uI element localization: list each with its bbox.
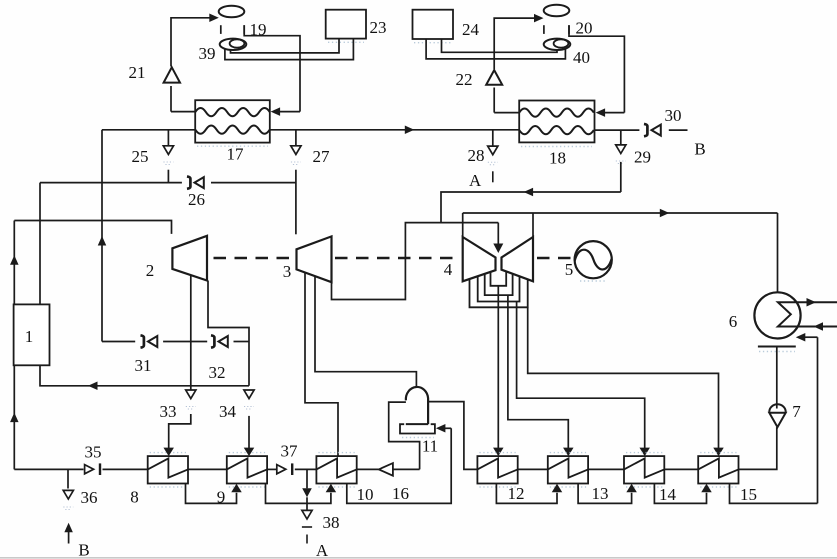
- heater 17 shell: [195, 100, 270, 142]
- heater 12 drain cascade to 13: [496, 484, 557, 504]
- flow arrow up into main steam line: [10, 255, 18, 264]
- turbine 3 extraction to deaerator 11: [315, 276, 416, 387]
- wire box 24 to pump 40 (lower): [426, 39, 565, 59]
- svg-text:2: 2: [146, 261, 155, 280]
- svg-text:A: A: [469, 171, 482, 190]
- wire fan discharge to heater 17 coil: [244, 25, 300, 111]
- heater 18 shell: [519, 101, 594, 143]
- wire ejector 22 to fan 20: [494, 18, 534, 69]
- wire hot reheat line to turbine 3: [40, 182, 182, 184]
- wire heater 12 to 13: [518, 468, 548, 470]
- wire pump 16 to deaerator outlet: [393, 468, 420, 470]
- svg-text:23: 23: [370, 18, 387, 37]
- wire coil outlet up to ejector 21: [170, 86, 172, 112]
- wire heater 14 to 15: [664, 468, 698, 470]
- coil outlet stub of 17: [171, 111, 195, 113]
- wire coil outlet up to ejector 22: [493, 88, 495, 113]
- wire extraction riser to heater 17: [101, 130, 103, 342]
- svg-text:37: 37: [281, 442, 299, 461]
- extraction drop to heater 14: [517, 302, 645, 449]
- turbine 4 left half: [463, 237, 496, 281]
- svg-text:40: 40: [573, 48, 590, 67]
- deaerator water to heater 12: [428, 402, 477, 470]
- scan edge shading bottom: [0, 557, 837, 559]
- flow arrow toward boiler: [88, 382, 98, 391]
- valve 35: [85, 465, 94, 474]
- extraction drop to heater 12: [497, 286, 499, 448]
- svg-text:11: 11: [422, 437, 438, 456]
- pump 39: [220, 39, 247, 50]
- A-branch with drain 38: [306, 469, 308, 488]
- shaft dashes 4-5: [537, 257, 572, 259]
- flow arrow on A-line: [524, 188, 534, 197]
- flow arrow on water line: [405, 126, 415, 135]
- generator 5: [575, 241, 612, 278]
- svg-text:24: 24: [462, 20, 480, 39]
- wire heater 8 to heater 9: [188, 468, 227, 470]
- drain 28: [492, 130, 494, 146]
- heater 18 water tubes: [519, 126, 594, 134]
- drain 25: [167, 130, 169, 146]
- valve 31: [141, 335, 144, 347]
- svg-text:35: 35: [85, 443, 102, 462]
- valve 7: [769, 404, 785, 412]
- coil inlet arrow into 17: [279, 111, 300, 113]
- svg-text:10: 10: [357, 485, 374, 504]
- wire heater 15 drain riser: [817, 337, 819, 503]
- wire hot reheat riser from boiler: [39, 183, 41, 305]
- svg-text:27: 27: [313, 147, 331, 166]
- network return B: [64, 523, 73, 533]
- svg-text:32: 32: [209, 363, 226, 382]
- turbine 3 extraction to heater 10: [305, 273, 338, 457]
- condenser 6: [754, 292, 800, 338]
- svg-text:14: 14: [659, 485, 677, 504]
- turbine 4 casing top / exhaust to condenser: [463, 212, 778, 214]
- svg-text:13: 13: [592, 484, 609, 503]
- svg-text:20: 20: [576, 19, 593, 38]
- svg-text:34: 34: [219, 402, 237, 421]
- wire to network supply B: [669, 129, 688, 131]
- svg-text:16: 16: [392, 484, 409, 503]
- condensate line to valve 7: [776, 348, 778, 409]
- heater 18 steam coil: [519, 108, 594, 116]
- extraction bracket a: [470, 279, 528, 307]
- wire A-line into turbine 4 inlet: [441, 192, 621, 223]
- wire drain 29 to A-line: [620, 162, 622, 192]
- wire valve 37 to heater 10: [295, 468, 317, 470]
- heater 8 drain cascade to 9: [186, 484, 237, 504]
- hotwell level bar: [758, 346, 796, 348]
- ejector 21: [164, 67, 180, 82]
- wire main steam line to turbine 2: [14, 221, 171, 234]
- svg-text:15: 15: [740, 485, 757, 504]
- wire reheat line after valve 26: [211, 182, 296, 184]
- ejector 22: [486, 70, 502, 85]
- turbine 4 right half: [502, 237, 534, 281]
- svg-text:30: 30: [665, 106, 682, 125]
- svg-text:12: 12: [508, 484, 525, 503]
- svg-text:B: B: [694, 140, 705, 159]
- svg-text:22: 22: [456, 70, 473, 89]
- shaft ticks under fan 20: [543, 25, 545, 34]
- wire valve 31 branch: [102, 341, 135, 343]
- flow arrow to condenser: [660, 209, 670, 218]
- extraction bracket d: [491, 271, 507, 285]
- turbine 3: [297, 236, 332, 282]
- drain 29: [620, 130, 622, 144]
- wire pump 39 to box 23 (lower): [225, 39, 354, 60]
- cooling water outlet arrow: [807, 298, 817, 307]
- svg-text:8: 8: [130, 488, 139, 507]
- heat network water line (left): [102, 129, 195, 131]
- wire drain 33 to heater 8: [169, 414, 191, 448]
- drain 27: [295, 130, 297, 146]
- deaerator 11 tray: [400, 424, 435, 433]
- condenser cooling coil: [778, 302, 837, 326]
- water line from B to valve 35: [14, 468, 83, 470]
- svg-text:1: 1: [25, 327, 34, 346]
- drain 36: [67, 469, 69, 488]
- coil outlet stub of 18: [494, 112, 519, 114]
- boiler 1: [14, 304, 50, 365]
- heater 14: [624, 456, 664, 483]
- condensate line to heater 15: [739, 427, 777, 469]
- svg-text:21: 21: [129, 63, 146, 82]
- valve 37: [277, 465, 286, 474]
- heater 12: [477, 456, 517, 483]
- heater 13: [548, 456, 588, 483]
- svg-text:25: 25: [132, 147, 149, 166]
- svg-text:18: 18: [549, 149, 566, 168]
- heater 8: [148, 456, 188, 483]
- wire feedwater return to boiler: [40, 365, 249, 386]
- extraction drop to heater 13: [508, 295, 568, 448]
- valve 30: [644, 124, 647, 136]
- svg-text:7: 7: [792, 402, 801, 421]
- drain return arrow into condenser: [805, 336, 818, 338]
- svg-text:B: B: [78, 541, 89, 559]
- heat network water line (middle): [270, 129, 519, 131]
- wire valve 35 to heater 8: [103, 468, 148, 470]
- wire boiler feed riser: [13, 365, 15, 469]
- wire boiler top to main steam header: [13, 221, 15, 305]
- heater 9 drain cascade to 10: [266, 484, 331, 504]
- wire fan discharge to heater 18 coil: [569, 25, 624, 112]
- turbine 4 inlet arrow: [497, 223, 499, 244]
- turbine 2 exhaust jog to header: [208, 281, 249, 386]
- fan 20: [544, 5, 570, 16]
- drain 33: [186, 390, 196, 399]
- svg-text:29: 29: [634, 148, 651, 167]
- shaft dashes 3-4: [335, 257, 459, 259]
- heater 17 steam coil: [195, 108, 270, 116]
- drive box 24: [413, 10, 454, 39]
- wire drain 34 to heater 9: [248, 416, 250, 448]
- svg-text:17: 17: [227, 145, 245, 164]
- extraction bracket c: [485, 274, 513, 296]
- svg-text:28: 28: [468, 146, 485, 165]
- deaerator 11 dome: [406, 387, 428, 424]
- shaft dashes 2-3: [214, 257, 292, 259]
- drain 34: [244, 390, 254, 399]
- wire heater 10 to pump 16: [357, 468, 378, 470]
- heater 9: [227, 456, 267, 483]
- heater 14 drain cascade to 15: [654, 484, 706, 504]
- turbine 3 exhaust crossover to turbine 4: [332, 223, 499, 300]
- pump 16: [379, 463, 393, 476]
- wire heater 9 to valve 37: [267, 468, 276, 470]
- flow arrow into fan 19: [209, 14, 219, 22]
- turbine 2 exhaust to drain 33: [190, 275, 192, 390]
- feed arrow into deaerator: [445, 427, 452, 429]
- wire pump 39 to box 23 (upper): [231, 39, 340, 53]
- wire box 24 to pump 40 (upper): [442, 39, 558, 52]
- svg-text:6: 6: [729, 312, 738, 331]
- wire turbine exhaust down to condenser: [777, 213, 779, 292]
- wire heater 13 to 14: [588, 468, 624, 470]
- casing sides: [462, 213, 464, 237]
- shaft ticks under fan 19: [220, 25, 222, 34]
- svg-text:26: 26: [188, 190, 205, 209]
- flow arrow up on riser: [98, 236, 107, 246]
- heat network water line (right): [595, 129, 640, 131]
- heater 13 drain cascade to 14: [578, 484, 632, 504]
- pump 40: [544, 39, 571, 50]
- heater 10: [316, 456, 356, 483]
- wire drain 25 to reheat line: [167, 170, 169, 183]
- valve 26: [187, 176, 190, 188]
- svg-text:5: 5: [565, 260, 574, 279]
- drive box 23: [326, 10, 366, 39]
- flow arrow into fan 20: [534, 14, 544, 23]
- heater 15: [698, 456, 738, 483]
- deaerator outlet zigzag: [389, 402, 420, 469]
- coil inlet arrow into 18: [605, 112, 625, 114]
- heater 17 water tubes: [195, 125, 270, 133]
- wire ejector 21 to fan 19: [171, 18, 210, 67]
- cooling water inlet arrow: [814, 322, 824, 331]
- wire between valves 31 and 32: [163, 341, 207, 343]
- turbine 2: [172, 236, 207, 281]
- svg-text:38: 38: [323, 513, 340, 532]
- svg-text:31: 31: [135, 356, 152, 375]
- fan 19: [219, 6, 245, 17]
- svg-text:39: 39: [199, 44, 216, 63]
- valve 32: [211, 335, 214, 347]
- wire drain 27 down to turbine 3 inlet: [295, 170, 297, 235]
- svg-text:36: 36: [81, 488, 98, 507]
- wire valve 32 to drain header: [234, 341, 250, 343]
- flow arrow up to boiler: [10, 413, 18, 423]
- svg-text:33: 33: [160, 402, 177, 421]
- heater 10 drain to deaerator: [347, 428, 451, 503]
- svg-text:4: 4: [444, 260, 453, 279]
- extraction drop to heater 15: [528, 307, 719, 448]
- svg-text:A: A: [316, 541, 329, 559]
- extraction bracket b: [478, 276, 520, 302]
- svg-text:3: 3: [283, 262, 292, 281]
- heater 15 drain to condenser riser: [730, 484, 818, 504]
- node A tick: [492, 171, 494, 182]
